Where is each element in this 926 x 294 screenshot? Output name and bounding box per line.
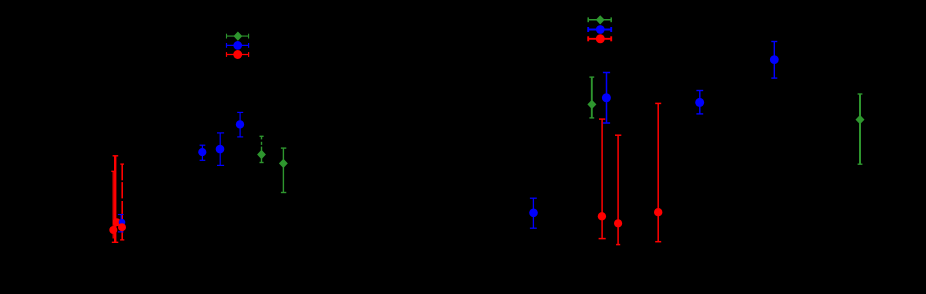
left red marker B <box>109 226 117 234</box>
right green point rg2 <box>856 94 865 164</box>
left green point g2 <box>279 148 288 192</box>
left blue point b2 <box>216 133 225 166</box>
right blue point rb4 <box>770 42 779 79</box>
right green point rg1 <box>587 77 596 118</box>
right red point rC <box>654 103 662 241</box>
left blue point b1 <box>198 145 206 160</box>
left legend blue circle entry <box>227 41 249 50</box>
right legend red circle entry <box>588 34 611 43</box>
left green point g1 <box>257 136 266 162</box>
left legend red circle entry <box>227 50 249 59</box>
left blue point b0 error bar <box>118 215 125 232</box>
black text overlay gaps on left red R3 bar <box>121 180 123 201</box>
left legend green diamond entry <box>227 32 249 41</box>
right legend blue circle entry <box>588 25 611 34</box>
black text overlay gaps on left green g1 bar <box>261 139 263 146</box>
right red point rB <box>614 135 622 244</box>
left red point R3 error bar <box>120 164 124 240</box>
right red point rA <box>598 119 606 239</box>
right blue point rb2 <box>602 73 611 124</box>
right legend green diamond entry <box>588 15 611 24</box>
left red point R1 thick error bar <box>112 156 119 243</box>
right blue point rb1 <box>529 198 538 228</box>
left blue point b3 <box>236 112 244 136</box>
left red point R2 error bar <box>111 171 115 238</box>
left red marker A <box>113 218 121 226</box>
right blue point rb3 <box>695 91 704 114</box>
left red marker C <box>118 223 126 231</box>
